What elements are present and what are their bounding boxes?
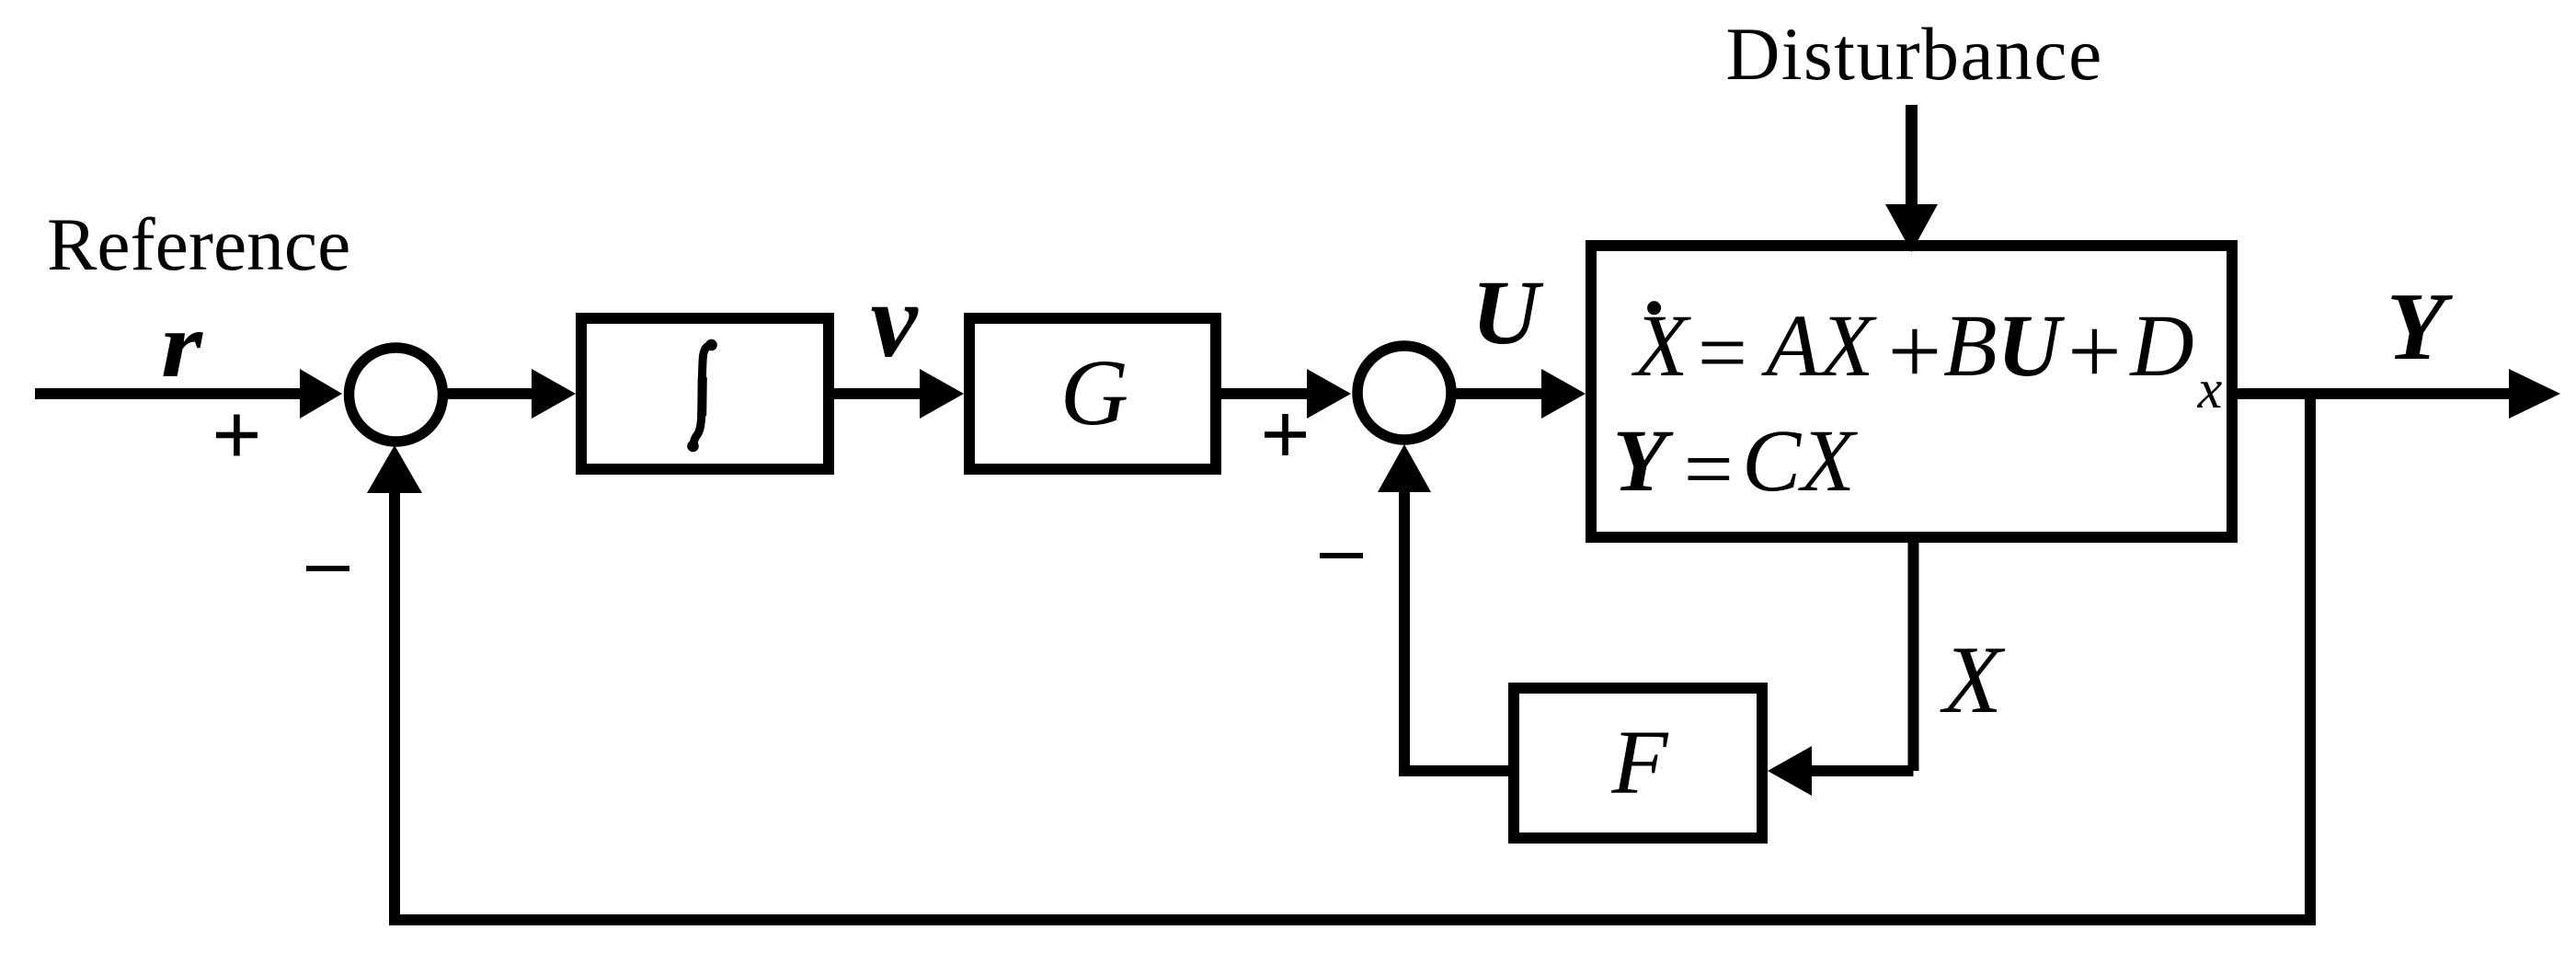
wire F to S2 feedback — [1399, 765, 1514, 776]
plus sign at S2 — [1265, 414, 1306, 455]
svg-text:Y: Y — [2387, 272, 2454, 380]
block G — [969, 318, 1216, 469]
arrowhead into G — [920, 369, 964, 419]
minus sign at S2 — [1320, 553, 1363, 558]
wire output Y — [2238, 388, 2513, 399]
summing junction S2 — [1357, 346, 1451, 440]
summing junction S1 — [349, 348, 443, 442]
svg-text:CX: CX — [1742, 411, 1858, 510]
plant block state equations — [1591, 246, 2232, 537]
svg-text:D: D — [2128, 296, 2193, 395]
svg-text:+: + — [2067, 299, 2122, 405]
arrowhead into S1 from below — [367, 445, 422, 493]
wire outer feedback rise to S1 — [389, 493, 400, 925]
arrowhead into plant — [1541, 369, 1586, 419]
integral symbol — [687, 339, 717, 453]
arrowhead into S2 — [1307, 369, 1351, 419]
integrator block — [581, 318, 829, 469]
wire rise to S2 — [1399, 490, 1410, 776]
block F — [1514, 688, 1762, 838]
arrowhead into summing junction S1 — [300, 369, 342, 419]
equation line 1: Xdot = AX + BU + Dx — [1631, 296, 2223, 419]
arrowhead into S2 from below — [1378, 444, 1431, 492]
svg-text:BU: BU — [1943, 296, 2066, 395]
svg-text:x: x — [2197, 359, 2223, 419]
svg-text:F: F — [1610, 711, 1668, 813]
svg-text:Reference: Reference — [47, 202, 350, 286]
arrowhead output Y — [2509, 369, 2560, 419]
wire S2 to plant — [1454, 388, 1543, 399]
wire S1 to integrator — [445, 388, 535, 399]
svg-text:r: r — [161, 293, 203, 397]
wire X drop from plant — [1908, 537, 1919, 771]
arrowhead disturbance into plant — [1885, 204, 1938, 252]
wire G to summing junction S2 — [1221, 388, 1310, 399]
svg-text:v: v — [870, 262, 919, 379]
svg-text:=: = — [1698, 304, 1747, 402]
equation line 2: Y = CX — [1613, 411, 1859, 518]
wire outer feedback bottom — [389, 914, 2316, 925]
svg-text:U: U — [1471, 261, 1544, 363]
svg-text:Disturbance: Disturbance — [1726, 12, 2103, 96]
svg-text:Y: Y — [1613, 411, 1674, 510]
wire integrator to G — [834, 388, 925, 399]
wire Y feedback tap down — [2305, 388, 2316, 920]
wire X to F — [1812, 765, 1914, 776]
svg-text:X: X — [1631, 296, 1691, 395]
svg-text:X: X — [1940, 626, 2006, 733]
svg-text:G: G — [1060, 340, 1128, 445]
arrowhead into F — [1768, 746, 1812, 796]
arrowhead into integrator — [532, 369, 576, 419]
minus sign at S1 — [306, 566, 349, 571]
plus sign at S1 — [216, 415, 258, 456]
wire disturbance — [1906, 105, 1918, 208]
svg-text:+: + — [1888, 299, 1942, 405]
svg-text:=: = — [1684, 419, 1734, 518]
svg-text:AX: AX — [1760, 296, 1877, 395]
wire input r — [35, 388, 303, 399]
